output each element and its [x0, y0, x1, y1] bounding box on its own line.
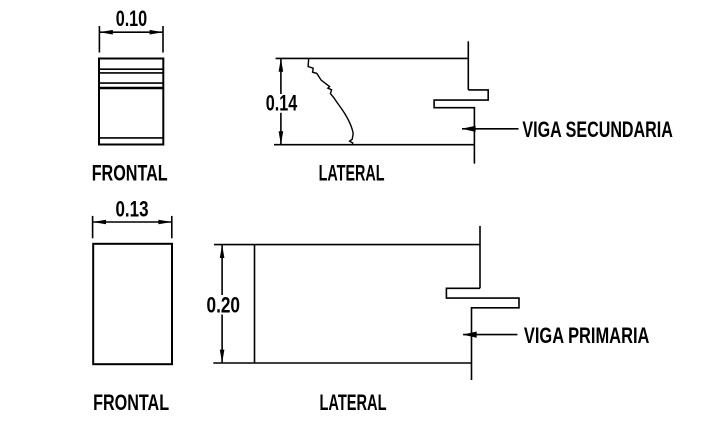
dimension 0.13 extension line right — [171, 216, 173, 238]
dimension 0.10 dimension line — [99, 31, 163, 33]
svg-text:FRONTAL: FRONTAL — [93, 390, 169, 415]
joint step polyline (lateral primaria) — [446, 288, 519, 380]
viga primaria lateral top edge — [214, 244, 480, 246]
viga secundaria lateral top edge — [276, 57, 469, 59]
dimension 0.20 arrowhead up — [220, 245, 225, 258]
svg-text:FRONTAL: FRONTAL — [92, 161, 168, 186]
dimension 0.20 dimension line upper segment — [221, 245, 223, 295]
dimension 0.10 extension line right — [162, 26, 164, 53]
viga secundaria lateral break line — [308, 58, 353, 144]
leader arrowhead VIGA PRIMARIA — [463, 332, 477, 338]
svg-text:LATERAL: LATERAL — [319, 161, 385, 186]
svg-text:0.10: 0.10 — [116, 6, 148, 31]
dimension 0.13 dimension line — [93, 221, 172, 223]
viga secundaria frontal lamination line 4 thick — [99, 87, 163, 90]
dimension 0.13 arrowhead right — [158, 220, 171, 225]
dimension 0.10 extension line left — [98, 26, 100, 53]
svg-text:VIGA SECUNDARIA: VIGA SECUNDARIA — [522, 117, 673, 142]
dimension 0.14 arrowhead up — [279, 58, 284, 71]
svg-text:LATERAL: LATERAL — [320, 390, 387, 415]
dimension 0.13 arrowhead left — [93, 220, 106, 225]
svg-text:0.13: 0.13 — [116, 196, 149, 221]
primary beam support upper vertical (lateral secundaria joint) — [467, 41, 469, 90]
viga primaria frontal view outline — [93, 244, 172, 364]
dimension 0.10 arrowhead left — [99, 30, 112, 35]
leader line VIGA SECUNDARIA — [462, 128, 519, 130]
viga secundaria frontal view outline — [99, 59, 163, 145]
viga secundaria frontal lamination line 5 — [99, 137, 163, 139]
viga secundaria frontal lamination line 2 — [99, 72, 163, 74]
leader line VIGA PRIMARIA — [463, 334, 517, 336]
viga secundaria frontal lamination line 3 — [99, 82, 163, 84]
viga secundaria lateral bottom edge — [274, 144, 474, 146]
viga secundaria frontal lamination line 1 — [99, 68, 163, 70]
svg-text:VIGA PRIMARIA: VIGA PRIMARIA — [524, 323, 650, 348]
dimension 0.20 dimension line lower segment — [221, 315, 223, 364]
joint step polyline (lateral secundaria) — [434, 90, 488, 164]
viga primaria lateral left end edge — [254, 245, 256, 363]
secondary beam upper vertical (lateral primaria joint) — [479, 226, 481, 288]
viga primaria lateral bottom edge — [213, 362, 471, 364]
dimension 0.20 arrowhead down — [220, 350, 225, 363]
svg-text:0.20: 0.20 — [207, 293, 241, 318]
leader arrowhead VIGA SECUNDARIA — [462, 126, 476, 132]
dimension 0.14 dimension line upper segment — [280, 58, 282, 94]
dimension 0.14 dimension line lower segment — [280, 113, 282, 145]
svg-text:0.14: 0.14 — [266, 91, 298, 116]
dimension 0.13 extension line left — [92, 216, 94, 238]
dimension 0.10 arrowhead right — [150, 30, 163, 35]
dimension 0.14 arrowhead down — [279, 131, 284, 144]
